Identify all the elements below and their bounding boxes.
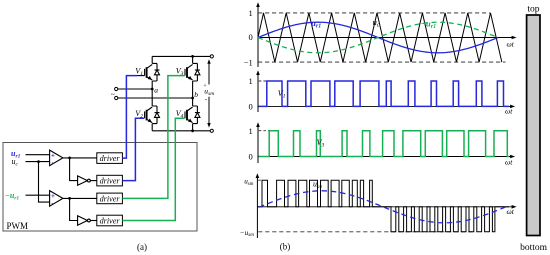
driver box 3 xyxy=(97,193,123,204)
svg-text:(b): (b) xyxy=(280,241,291,251)
panel4 tick label u_sm xyxy=(244,178,254,187)
panel2 y-axis xyxy=(256,70,260,112)
svg-text:~: ~ xyxy=(111,90,115,99)
label V4 (IGBT with freewheel diode) xyxy=(176,109,184,120)
label u_c xyxy=(373,17,380,29)
panel3 dashed level 1 xyxy=(259,130,269,132)
output voltage u_ab pulse train xyxy=(258,180,509,232)
label V3 (IGBT with freewheel diode) xyxy=(176,67,184,78)
voltage arrow u_sm xyxy=(207,59,210,127)
label input u_c xyxy=(12,157,19,168)
label V1 xyxy=(278,89,286,99)
AC input terminal lower xyxy=(115,96,118,99)
svg-text:V3: V3 xyxy=(317,138,325,148)
label u_ab xyxy=(313,180,323,190)
junction comparator2 output xyxy=(68,197,71,200)
label top xyxy=(527,5,539,15)
node a xyxy=(151,86,158,95)
label u_sm output voltage xyxy=(203,83,214,103)
svg-text:driver: driver xyxy=(100,194,121,203)
svg-text:0: 0 xyxy=(249,32,253,42)
svg-text:−ur1: −ur1 xyxy=(5,191,19,202)
svg-text:driver: driver xyxy=(100,154,121,163)
label V1 (IGBT with freewheel diode) xyxy=(135,67,143,78)
wire inverter1 to driver2 xyxy=(90,180,97,182)
comparator U3 xyxy=(50,191,63,208)
panel2 x-axis xyxy=(258,105,515,109)
label input u_r1 xyxy=(11,149,21,160)
svg-text:driver: driver xyxy=(100,216,121,225)
wire comparator2 output xyxy=(63,197,97,199)
svg-text:bottom: bottom xyxy=(520,243,548,253)
svg-text:-: - xyxy=(51,198,54,207)
panel3 axis label omega-t xyxy=(505,157,513,166)
caption (a) xyxy=(137,242,147,252)
svg-text:b: b xyxy=(194,90,198,99)
label V2 (IGBT with freewheel diode) xyxy=(135,109,143,120)
svg-text:ur1: ur1 xyxy=(311,18,321,30)
wire V1 gate lead xyxy=(137,75,145,77)
PWM modulator box xyxy=(3,143,197,232)
wire top DC rail xyxy=(152,55,210,57)
wire u_r1 input xyxy=(26,154,50,156)
svg-text:1: 1 xyxy=(249,76,253,86)
wire comparator1 output xyxy=(63,157,97,159)
wire bottom DC rail xyxy=(152,130,210,132)
panel1 y-axis xyxy=(256,2,260,67)
transistor V2 (IGBT with freewheel diode) xyxy=(145,106,160,124)
panel1 dashed level -1 xyxy=(258,61,506,63)
inverter U4 xyxy=(78,216,91,225)
svg-text:-: - xyxy=(51,158,54,167)
panel4 y-axis xyxy=(256,173,260,238)
label -u_r1 xyxy=(421,18,437,30)
wire inverter2 to driver4 xyxy=(90,220,97,222)
junction bottom rail / V4 xyxy=(191,129,194,132)
output terminal upper xyxy=(210,55,213,58)
wire AC upper to node a xyxy=(118,88,152,90)
panel3 y-axis xyxy=(256,122,260,163)
driver box 2 xyxy=(97,175,123,186)
carrier triangle wave u_c xyxy=(258,13,502,62)
wire -u_r1 input xyxy=(26,194,50,196)
wire driver3 to V3 gate (green) xyxy=(122,76,184,199)
panel1 dashed level +1 xyxy=(258,12,490,14)
svg-text:V1: V1 xyxy=(278,89,286,99)
label input -u_r1 xyxy=(5,191,19,202)
wire u_c to comparator 2 xyxy=(39,162,50,203)
panel4 axis label omega-t xyxy=(507,207,515,216)
inverter U2 xyxy=(78,176,91,185)
panel1 axis label omega-t xyxy=(507,40,515,49)
AC source tilde symbol xyxy=(111,90,115,99)
junction u_c branch xyxy=(37,160,40,163)
label u_r1 xyxy=(311,18,321,30)
panel2 axis label omega-t xyxy=(505,107,513,116)
svg-text:PWM: PWM xyxy=(7,221,29,231)
svg-text:−usm: −usm xyxy=(240,229,254,238)
reference sine u_r1 (blue) xyxy=(258,22,498,53)
label V3 xyxy=(317,138,325,148)
reference sine -u_r1 (green dashed) xyxy=(258,22,498,53)
svg-text:1: 1 xyxy=(249,8,253,18)
wire right bridge leg xyxy=(192,56,194,130)
panel4 dashed level -u_sm xyxy=(258,231,474,233)
svg-text:(a): (a) xyxy=(137,242,147,252)
panel3 x-axis xyxy=(258,155,515,159)
transistor V4 (IGBT with freewheel diode) xyxy=(185,106,200,124)
wire driver4 to V4 gate (green) xyxy=(122,118,184,220)
wire u_c input xyxy=(26,161,50,163)
panel2 tick labels xyxy=(249,76,253,111)
junction comparator1 output xyxy=(68,157,71,160)
caption (b) xyxy=(280,241,291,251)
node b xyxy=(191,90,198,99)
transistor V3 (IGBT with freewheel diode) xyxy=(185,63,200,81)
svg-text:+: + xyxy=(203,83,206,89)
label PWM xyxy=(7,221,29,231)
wire branch to inverter 1 xyxy=(70,158,78,181)
comparator U1 xyxy=(50,150,63,167)
driver box 4 xyxy=(97,215,123,226)
V3 gate signal (green pulse train) xyxy=(259,131,509,157)
svg-text:−ur1: −ur1 xyxy=(421,18,437,30)
panel1 tick labels 1 0 -1 xyxy=(244,8,253,67)
driver box 1 xyxy=(97,153,123,164)
svg-text:ωt: ωt xyxy=(507,40,515,49)
fundamental of output voltage (blue dashed sine) xyxy=(259,191,508,223)
wire left bridge leg xyxy=(151,56,153,130)
panel3 tick labels xyxy=(249,126,253,161)
svg-text:driver: driver xyxy=(100,177,121,186)
svg-text:top: top xyxy=(527,5,539,15)
label bottom xyxy=(520,243,548,253)
output terminal lower xyxy=(210,129,213,132)
panel1 x-axis (omega t) xyxy=(258,36,517,40)
svg-text:usm: usm xyxy=(244,178,254,187)
transistor V1 (IGBT with freewheel diode) xyxy=(145,63,160,81)
panel4 x-axis xyxy=(257,205,516,209)
svg-text:0: 0 xyxy=(249,152,253,162)
AC input terminal upper xyxy=(115,87,118,90)
wire driver1 to V1 gate (blue) xyxy=(122,76,136,159)
svg-text:0: 0 xyxy=(249,102,253,112)
svg-text:ωt: ωt xyxy=(507,207,515,216)
svg-text:a: a xyxy=(154,86,158,95)
svg-text:ωt: ωt xyxy=(505,157,513,166)
panel4 dashed level +u_sm xyxy=(258,179,261,181)
gray scale bar (top/bottom) xyxy=(527,15,540,236)
svg-text:ωt: ωt xyxy=(505,107,513,116)
junction top rail / V3 xyxy=(191,55,194,58)
panel2 dashed level 1 xyxy=(259,80,266,82)
svg-text:−1: −1 xyxy=(244,57,253,67)
svg-text:1: 1 xyxy=(249,126,253,136)
wire branch to inverter 2 xyxy=(70,198,78,220)
wire driver2 to V2 gate (blue) xyxy=(122,118,144,180)
V1 gate signal (blue pulse train) xyxy=(259,81,509,106)
panel4 tick label -u_sm xyxy=(240,229,254,238)
wire AC lower to node b xyxy=(118,97,193,99)
